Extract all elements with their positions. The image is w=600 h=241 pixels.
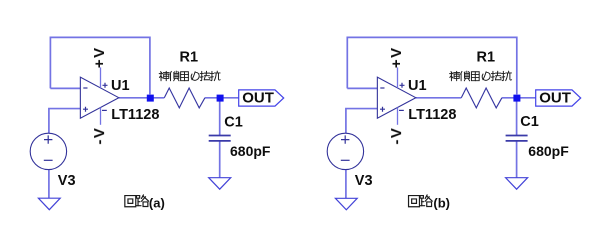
- svg-text:C1: C1: [224, 115, 243, 131]
- svg-text:(a): (a): [149, 195, 165, 210]
- wire junction to C1 (b): [516, 98, 518, 136]
- wire resistor to OUT (a): [205, 97, 239, 99]
- ground below V3 (a): [38, 198, 60, 210]
- op-amp U1 (a): [80, 77, 118, 118]
- svg-text:U1: U1: [408, 78, 427, 94]
- caption 回路(b): [409, 195, 433, 207]
- voltage source V3 (a): [30, 133, 66, 169]
- caption 回路(a): [125, 195, 149, 207]
- wire inverting input (b): [347, 87, 377, 89]
- wire op-amp output (a): [119, 97, 165, 99]
- pin -V stub (b): [397, 108, 399, 125]
- svg-text:LT1128: LT1128: [408, 107, 456, 123]
- ground below C1 (b): [506, 178, 528, 190]
- wire C1 to ground (b): [516, 141, 518, 178]
- ground below V3 (b): [335, 198, 357, 210]
- voltage source V3 (b): [327, 133, 363, 169]
- junction node at OUT/C1 (a): [217, 95, 224, 102]
- wire op-amp output (b): [416, 97, 462, 99]
- junction node at OUT/C1/feedback (b): [513, 95, 520, 102]
- svg-text:R1: R1: [477, 49, 496, 65]
- capacitor C1 (a): [209, 136, 231, 141]
- pin -V stub (a): [100, 108, 102, 125]
- wire resistor to OUT (b): [502, 97, 536, 99]
- svg-text:U1: U1: [111, 78, 130, 94]
- pin +V stub (b): [397, 67, 399, 88]
- wire junction to C1 (a): [219, 98, 221, 136]
- pin +V stub (a): [100, 67, 102, 88]
- svg-text:V3: V3: [355, 173, 373, 189]
- svg-text:680pF: 680pF: [230, 143, 271, 159]
- ground below C1 (a): [209, 178, 231, 190]
- wire V3 to ground (a): [48, 170, 50, 199]
- capacitor C1 (b): [506, 136, 528, 141]
- svg-text:OUT: OUT: [242, 90, 274, 107]
- svg-text:680pF: 680pF: [528, 143, 569, 159]
- svg-text:(b): (b): [433, 195, 450, 210]
- wire C1 to ground (a): [219, 141, 221, 178]
- svg-text:V3: V3: [58, 173, 76, 189]
- svg-text:C1: C1: [520, 114, 539, 130]
- svg-text:OUT: OUT: [539, 90, 571, 107]
- svg-text:+V: +V: [91, 46, 108, 68]
- net flag OUT (a): [239, 90, 284, 106]
- comment 補償用の抵抗 (b): [450, 71, 512, 81]
- comment 補償用の抵抗 (a): [159, 71, 220, 81]
- resistor R1 (a): [164, 88, 205, 108]
- svg-text:-V: -V: [388, 127, 405, 145]
- junction node at op-amp output (a): [147, 95, 154, 102]
- wire V3 to ground (b): [345, 170, 347, 199]
- svg-text:R1: R1: [180, 49, 199, 65]
- wire noninverting input to V3 (b): [346, 109, 377, 134]
- svg-text:+V: +V: [388, 46, 405, 68]
- svg-text:LT1128: LT1128: [111, 107, 159, 123]
- wire feedback top rail (b): [347, 37, 517, 94]
- wire feedback top rail (a): [50, 37, 149, 94]
- resistor R1 (b): [461, 88, 502, 108]
- op-amp U1 (b): [377, 77, 415, 118]
- wire noninverting input to V3 (a): [49, 109, 80, 134]
- wire inverting input (a): [50, 87, 80, 89]
- net flag OUT (b): [536, 90, 581, 106]
- svg-text:-V: -V: [91, 127, 108, 145]
